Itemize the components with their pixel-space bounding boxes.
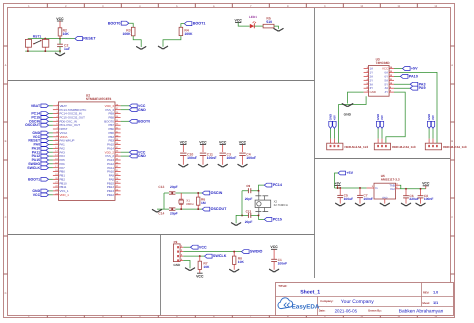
svg-text:Out: Out xyxy=(390,187,395,191)
svg-text:+5V: +5V xyxy=(334,181,341,185)
svg-text:1/1: 1/1 xyxy=(433,301,438,305)
svg-text:+5V: +5V xyxy=(380,115,384,120)
svg-text:+5V: +5V xyxy=(431,115,435,120)
svg-text:C12: C12 xyxy=(246,209,252,213)
svg-text:4Y: 4Y xyxy=(385,90,389,94)
svg-text:GND: GND xyxy=(370,90,376,94)
svg-text:1M: 1M xyxy=(201,201,206,205)
svg-text:10K: 10K xyxy=(63,32,70,36)
svg-text:74HC04D: 74HC04D xyxy=(376,61,391,65)
svg-text:20pF: 20pF xyxy=(245,197,253,201)
svg-text:220uF: 220uF xyxy=(409,197,419,201)
svg-text:GND: GND xyxy=(344,112,352,116)
svg-text:2021-06-05: 2021-06-05 xyxy=(335,308,358,313)
svg-text:20pF: 20pF xyxy=(170,212,178,216)
svg-text:VCC: VCC xyxy=(180,140,188,144)
svg-text:VCC: VCC xyxy=(422,182,430,186)
svg-text:Sheet:: Sheet: xyxy=(422,302,430,305)
svg-text:Your Company: Your Company xyxy=(341,299,374,305)
svg-text:1.0: 1.0 xyxy=(433,291,438,295)
svg-text:D: D xyxy=(5,292,7,295)
svg-text:1uF: 1uF xyxy=(64,47,70,51)
svg-text:100nF: 100nF xyxy=(207,156,217,160)
svg-text:P2: P2 xyxy=(174,240,178,244)
svg-text:Babken Abrahamyan: Babken Abrahamyan xyxy=(399,308,444,314)
svg-text:C13: C13 xyxy=(158,185,164,189)
svg-text:100nF: 100nF xyxy=(227,156,237,160)
svg-text:B: B xyxy=(451,140,453,143)
svg-text:In: In xyxy=(375,186,378,190)
svg-text:BOOT1: BOOT1 xyxy=(28,177,40,181)
svg-text:20pF: 20pF xyxy=(245,220,253,224)
svg-text:Date:: Date: xyxy=(319,310,326,313)
svg-text:PC14: PC14 xyxy=(273,183,283,187)
svg-text:Drawn By:: Drawn By: xyxy=(368,310,381,313)
svg-text:100K: 100K xyxy=(184,32,193,36)
svg-text:PA10: PA10 xyxy=(409,75,418,79)
svg-text:A: A xyxy=(5,64,7,67)
svg-text:GND: GND xyxy=(382,196,388,199)
svg-text:VCC: VCC xyxy=(196,275,204,279)
svg-text:C: C xyxy=(5,216,7,219)
svg-text:GND: GND xyxy=(173,263,181,267)
svg-text:AMS1117-3.3: AMS1117-3.3 xyxy=(381,178,400,182)
svg-text:PC15: PC15 xyxy=(273,218,282,222)
svg-text:B: B xyxy=(5,140,7,143)
svg-text:EasyEDA: EasyEDA xyxy=(292,304,320,311)
svg-text:A: A xyxy=(451,64,453,67)
svg-text:VCC: VCC xyxy=(235,18,243,22)
svg-text:OSCOUT: OSCOUT xyxy=(211,207,228,211)
svg-text:LED1: LED1 xyxy=(249,15,257,19)
svg-text:10K: 10K xyxy=(238,260,245,264)
svg-text:100K: 100K xyxy=(122,32,131,36)
svg-text:VCC: VCC xyxy=(199,245,207,249)
svg-text:OSCIN: OSCIN xyxy=(211,191,223,195)
svg-text:VCC: VCC xyxy=(199,140,207,144)
svg-text:Company:: Company: xyxy=(320,300,333,303)
svg-text:+5V: +5V xyxy=(346,171,353,175)
svg-text:GND: GND xyxy=(138,108,146,112)
svg-text:C14: C14 xyxy=(158,212,164,216)
svg-text:10K: 10K xyxy=(203,265,210,269)
svg-text:510: 510 xyxy=(266,20,272,24)
svg-text:BOOT0: BOOT0 xyxy=(138,119,150,123)
svg-text:BOOT1: BOOT1 xyxy=(193,22,206,26)
svg-text:TITLE:: TITLE: xyxy=(278,284,287,288)
svg-text:20pF: 20pF xyxy=(170,185,178,189)
svg-text:+5V: +5V xyxy=(332,115,336,120)
svg-text:RESET: RESET xyxy=(83,37,96,41)
svg-text:SWCLK: SWCLK xyxy=(27,166,40,170)
svg-text:HDR-M-2.54_1x3: HDR-M-2.54_1x3 xyxy=(392,145,416,149)
svg-text:100nF: 100nF xyxy=(424,197,434,201)
svg-text:HDR-M-2.54_1x3: HDR-M-2.54_1x3 xyxy=(345,145,369,149)
svg-text:VDD_1: VDD_1 xyxy=(60,193,70,197)
svg-text:STM32F107C8T6: STM32F107C8T6 xyxy=(86,97,112,101)
svg-text:8MHz: 8MHz xyxy=(186,202,194,206)
svg-text:100nF: 100nF xyxy=(363,197,373,201)
svg-text:VCC: VCC xyxy=(270,245,278,249)
svg-text:+5V: +5V xyxy=(411,67,418,71)
svg-text:SWDIO: SWDIO xyxy=(250,250,263,254)
svg-text:VCC: VCC xyxy=(219,140,227,144)
svg-text:VCC: VCC xyxy=(56,17,64,21)
svg-text:HDR-M-2.54_1x3: HDR-M-2.54_1x3 xyxy=(443,145,467,149)
svg-text:100nF: 100nF xyxy=(246,156,256,160)
svg-text:VCC: VCC xyxy=(239,140,247,144)
svg-text:PA9: PA9 xyxy=(419,86,426,90)
svg-text:OSCOUT: OSCOUT xyxy=(25,123,41,127)
svg-text:100nF: 100nF xyxy=(278,262,288,266)
svg-text:100nF: 100nF xyxy=(187,156,197,160)
svg-text:32.768KHz: 32.768KHz xyxy=(274,203,289,207)
svg-text:Sheet_1: Sheet_1 xyxy=(300,290,320,296)
svg-text:PB12: PB12 xyxy=(107,193,114,197)
svg-text:C: C xyxy=(451,216,453,219)
svg-text:100uF: 100uF xyxy=(344,197,354,201)
svg-text:REV:: REV: xyxy=(423,291,429,294)
svg-text:RST1: RST1 xyxy=(33,34,42,38)
svg-text:VBAT: VBAT xyxy=(31,104,41,108)
svg-text:GND: GND xyxy=(138,154,146,158)
svg-text:SWCLK: SWCLK xyxy=(213,254,227,258)
svg-text:BOOT0: BOOT0 xyxy=(108,21,121,25)
svg-text:C9: C9 xyxy=(246,184,250,188)
svg-text:VCC: VCC xyxy=(33,193,41,197)
